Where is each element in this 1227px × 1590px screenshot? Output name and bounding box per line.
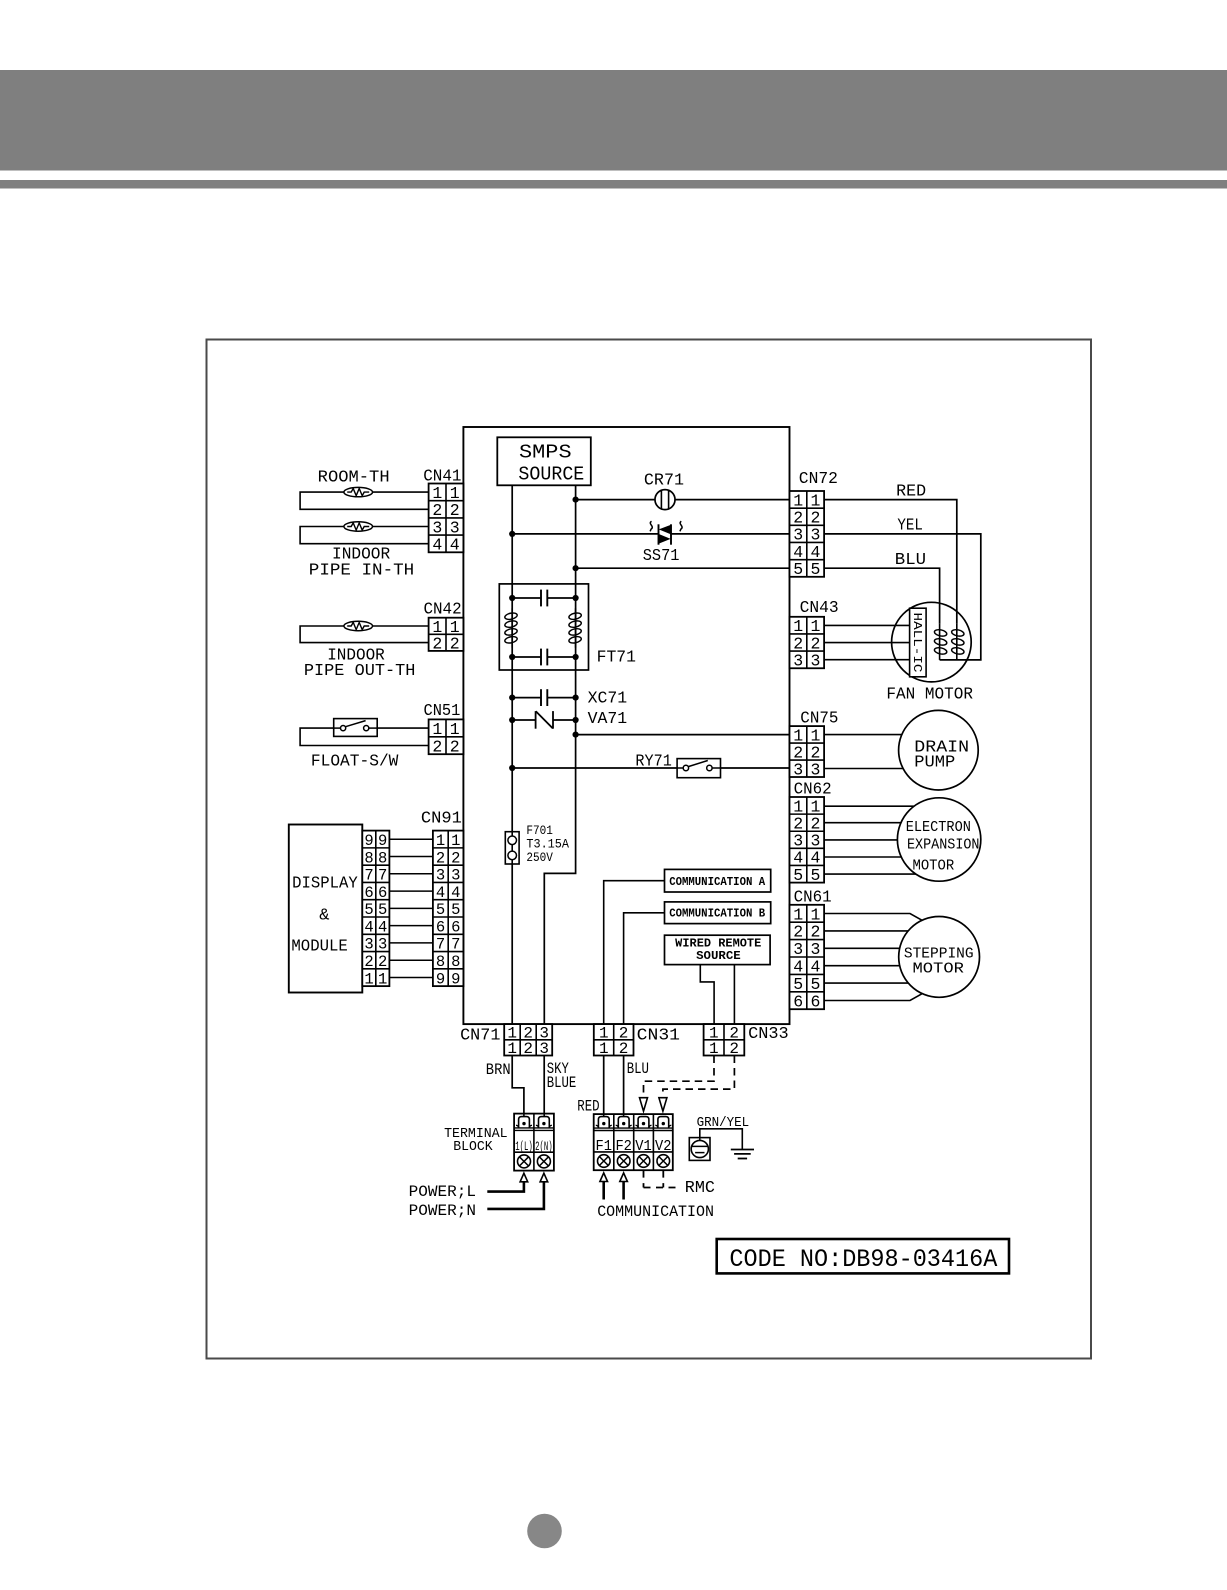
svg-text:8: 8 <box>378 849 387 867</box>
triac SS71 <box>650 521 682 544</box>
wire SS71 row <box>512 533 658 535</box>
connector CN51 body <box>429 719 464 754</box>
wire RY71 row left <box>512 767 677 769</box>
svg-text:CN33: CN33 <box>748 1024 789 1043</box>
wire CN72 pin3 YEL <box>824 534 981 660</box>
svg-text:VA71: VA71 <box>588 709 628 728</box>
svg-text:5: 5 <box>436 901 445 919</box>
svg-text:2: 2 <box>810 634 820 653</box>
block COMMUNICATION B <box>665 902 771 924</box>
svg-text:2: 2 <box>450 737 460 756</box>
wire WIRED REMOTE SOURCE to CN33 pin1 <box>700 965 714 1025</box>
varistor VA71 <box>512 711 575 729</box>
svg-text:YEL: YEL <box>897 516 923 535</box>
wire CN43 pin3 <box>824 659 910 661</box>
svg-text:XC71: XC71 <box>588 689 628 708</box>
svg-text:2: 2 <box>432 737 442 756</box>
arrow POWER;N <box>540 1173 548 1182</box>
cable ROOM-TH <box>300 492 429 509</box>
screw terminal V1 <box>637 1155 650 1168</box>
svg-text:1: 1 <box>364 970 373 988</box>
svg-text:F701: F701 <box>526 824 553 838</box>
svg-text:2: 2 <box>793 634 803 653</box>
svg-text:COMMUNICATION B: COMMUNICATION B <box>669 908 765 921</box>
svg-text:MODULE: MODULE <box>291 938 347 957</box>
junction left rail / RY71 row <box>509 765 515 771</box>
screw terminal V2 <box>657 1155 670 1168</box>
svg-text:9: 9 <box>451 970 460 988</box>
svg-text:CN75: CN75 <box>800 709 838 728</box>
page number circle <box>527 1514 562 1549</box>
capacitor FT71 top <box>512 590 575 607</box>
wire WIRED REMOTE SOURCE to CN33 pin2 <box>733 965 735 1025</box>
svg-text:FT71: FT71 <box>597 648 636 667</box>
junction FT71 top right <box>573 595 579 601</box>
wire RED to F1 <box>603 1056 605 1117</box>
wire CN72 pin1 RED <box>824 500 957 624</box>
svg-text:BLU: BLU <box>895 550 926 569</box>
svg-text:POWER;N: POWER;N <box>409 1202 476 1220</box>
svg-text:6: 6 <box>364 884 373 902</box>
svg-text:WIRED REMOTE: WIRED REMOTE <box>675 938 761 951</box>
svg-text:CN71: CN71 <box>460 1026 500 1045</box>
connector CN91 pin numbers <box>436 832 461 988</box>
svg-text:2: 2 <box>523 1040 533 1058</box>
svg-text:250V: 250V <box>526 851 553 865</box>
svg-text:2: 2 <box>793 509 803 528</box>
fuse F701 <box>505 832 519 864</box>
junction right rail / CR71 row <box>573 497 579 503</box>
svg-text:STEPPING: STEPPING <box>904 947 974 963</box>
svg-text:5: 5 <box>793 560 803 579</box>
svg-text:CN72: CN72 <box>799 469 838 488</box>
wire BRN entry stub <box>523 1114 525 1117</box>
float switch FLOAT-S/W <box>334 719 378 737</box>
svg-text:FLOAT-S/W: FLOAT-S/W <box>311 752 399 771</box>
svg-text:7: 7 <box>436 936 445 954</box>
motor FAN MOTOR circle <box>892 602 972 682</box>
connector CN91 body <box>433 831 464 987</box>
wires CN62 to expansion motor <box>824 806 916 874</box>
svg-text:4: 4 <box>810 958 820 977</box>
labels F1 F2 V1 V2 <box>596 1139 672 1155</box>
svg-text:CODE NO:DB98-03416A: CODE NO:DB98-03416A <box>729 1245 997 1274</box>
svg-text:8: 8 <box>451 953 460 971</box>
inductor fan motor aux winding <box>951 624 965 660</box>
dashed wire CN33 pin2 to V2 <box>663 1056 735 1097</box>
cable FLOAT-S/W <box>300 728 429 745</box>
svg-text:3: 3 <box>810 652 820 671</box>
svg-text:RY71: RY71 <box>635 752 671 771</box>
connector CN61 pin numbers <box>793 905 820 1011</box>
svg-text:COMMUNICATION: COMMUNICATION <box>597 1203 714 1221</box>
wire SMPS left rail <box>511 485 513 1024</box>
terminal clamp V2 <box>655 1117 671 1128</box>
svg-text:3: 3 <box>436 867 445 885</box>
terminal clamp 1(L) <box>516 1117 532 1128</box>
inductor fan motor main winding <box>934 624 948 660</box>
wires CN61 to stepping motor <box>824 914 923 1001</box>
wire BLU entry stub <box>623 1114 625 1117</box>
earth screw GRN/YEL <box>689 1138 710 1161</box>
svg-text:PIPE OUT-TH: PIPE OUT-TH <box>304 661 416 680</box>
junction FT71 bottom left <box>509 654 515 660</box>
svg-text:5: 5 <box>364 901 373 919</box>
svg-text:PIPE IN-TH: PIPE IN-TH <box>309 561 414 580</box>
svg-text:5: 5 <box>451 901 460 919</box>
junction XC71 right <box>573 695 579 701</box>
connector CN31 body <box>594 1024 634 1055</box>
svg-text:4: 4 <box>451 884 460 902</box>
connector CN51 pin numbers <box>432 720 459 756</box>
inductor FT71 right winding <box>568 608 582 647</box>
SMPS SOURCE block <box>497 437 591 485</box>
diagram outer border <box>207 340 1092 1359</box>
wire CN43 pin2 <box>824 642 910 644</box>
block COMMUNICATION A <box>665 869 771 892</box>
label INDOOR PIPE OUT-TH <box>304 646 416 681</box>
wires DISPLAY to CN91 <box>389 839 433 977</box>
screw terminal F2 <box>617 1155 630 1168</box>
svg-text:4: 4 <box>432 536 442 555</box>
svg-text:5: 5 <box>378 901 387 919</box>
svg-text:SS71: SS71 <box>643 546 680 565</box>
svg-text:3: 3 <box>810 526 820 545</box>
svg-text:6: 6 <box>793 992 803 1011</box>
connector CN62 body <box>790 797 825 883</box>
svg-text:4: 4 <box>436 884 445 902</box>
svg-text:5: 5 <box>793 975 803 994</box>
svg-text:4: 4 <box>450 536 460 555</box>
svg-text:3: 3 <box>378 936 387 954</box>
wire BRN <box>512 1056 524 1117</box>
svg-text:2: 2 <box>436 849 445 867</box>
svg-text:F1: F1 <box>596 1139 613 1155</box>
wire CN75 pin3 to pump <box>824 768 903 770</box>
junction right rail / CN75 pin1 <box>573 732 579 738</box>
svg-text:7: 7 <box>378 867 387 885</box>
connector CN41 pin numbers <box>432 484 459 555</box>
svg-text:1: 1 <box>450 720 460 739</box>
wire CN72 pin5 row <box>576 567 790 569</box>
main control board outline <box>463 427 789 1024</box>
wire CR71 row <box>576 499 655 501</box>
svg-text:2: 2 <box>793 923 803 942</box>
svg-text:V2: V2 <box>655 1139 672 1155</box>
motor STEPPING MOTOR <box>899 917 980 998</box>
label INDOOR PIPE IN-TH <box>309 545 414 580</box>
svg-text:1: 1 <box>436 832 445 850</box>
svg-text:2(N): 2(N) <box>535 1140 553 1154</box>
svg-text:2: 2 <box>432 501 442 520</box>
svg-text:5: 5 <box>810 560 820 579</box>
svg-text:&: & <box>319 907 329 926</box>
svg-text:BLUE: BLUE <box>547 1074 577 1092</box>
svg-text:SMPS: SMPS <box>519 442 572 464</box>
wire COMMUNICATION F2 arrow <box>622 1181 625 1199</box>
junction right rail / pin5 row <box>573 565 579 571</box>
connector CN41 body <box>429 484 464 553</box>
svg-text:3: 3 <box>432 518 442 537</box>
wire POWER;L <box>487 1182 524 1192</box>
terminal block COMMUNICATION body <box>594 1114 673 1170</box>
svg-text:4: 4 <box>364 918 373 936</box>
svg-text:CR71: CR71 <box>644 471 684 490</box>
motor ELECTRON EXPANSION MOTOR <box>897 798 980 881</box>
svg-text:3: 3 <box>793 526 803 545</box>
screw terminal 1(L) <box>518 1155 531 1168</box>
svg-text:RED: RED <box>577 1098 599 1116</box>
svg-text:6: 6 <box>378 884 387 902</box>
svg-text:F2: F2 <box>615 1139 632 1155</box>
svg-text:3: 3 <box>793 652 803 671</box>
svg-text:5: 5 <box>810 866 820 885</box>
svg-text:BLOCK: BLOCK <box>453 1140 493 1155</box>
svg-text:1: 1 <box>793 905 803 924</box>
svg-text:3: 3 <box>364 936 373 954</box>
wire SKY BLUE entry stub <box>543 1114 545 1117</box>
dashed wire V1 V2 to RMC <box>644 1171 682 1188</box>
screw terminal F1 <box>598 1155 611 1168</box>
wire right rail to CN75 pin1 <box>576 734 790 736</box>
svg-text:9: 9 <box>364 832 373 850</box>
DISPLAY & MODULE block <box>289 825 363 993</box>
svg-text:MOTOR: MOTOR <box>913 962 965 978</box>
cable INDOOR PIPE OUT-TH <box>300 626 429 643</box>
wire earth <box>700 1129 743 1150</box>
svg-text:SOURCE: SOURCE <box>518 464 584 486</box>
svg-text:1: 1 <box>432 720 442 739</box>
svg-text:RED: RED <box>896 482 926 501</box>
svg-text:5: 5 <box>793 866 803 885</box>
svg-text:FAN MOTOR: FAN MOTOR <box>886 685 973 704</box>
wire CN72 pin5 BLU <box>824 568 940 624</box>
connector CN72 body <box>790 491 825 577</box>
svg-text:CN43: CN43 <box>800 598 839 617</box>
thermistor ROOM-TH <box>344 487 373 496</box>
connector CN61 body <box>790 905 825 1009</box>
svg-text:8: 8 <box>436 953 445 971</box>
arrow into V1 <box>640 1098 648 1112</box>
svg-text:3: 3 <box>810 760 820 779</box>
block WIRED REMOTE SOURCE <box>665 935 771 964</box>
connector DISPLAY-side body <box>362 831 389 987</box>
inductor FT71 left winding <box>504 608 518 647</box>
label F701 value <box>526 824 569 865</box>
svg-text:CN62: CN62 <box>794 780 832 799</box>
svg-text:2: 2 <box>810 923 820 942</box>
connector CN71 body <box>504 1024 552 1055</box>
svg-text:CN42: CN42 <box>424 600 462 619</box>
connector CN33 pin numbers <box>709 1025 739 1059</box>
svg-text:BLU: BLU <box>627 1060 649 1078</box>
svg-text:T3.15A: T3.15A <box>526 838 569 852</box>
crystal CR71 <box>655 490 675 510</box>
connector CN43 pin numbers <box>793 617 820 670</box>
svg-text:CN51: CN51 <box>424 701 461 720</box>
svg-text:7: 7 <box>451 936 460 954</box>
svg-text:BRN: BRN <box>486 1061 511 1079</box>
junction VA71 left <box>509 717 515 723</box>
connector CN72 pin numbers <box>793 491 820 579</box>
terminal clamp 2(N) <box>536 1117 552 1128</box>
svg-text:HALL-IC: HALL-IC <box>910 613 923 673</box>
svg-text:1: 1 <box>810 905 820 924</box>
label TERMINAL BLOCK <box>444 1127 508 1155</box>
svg-text:1(L): 1(L) <box>515 1140 533 1154</box>
svg-text:3: 3 <box>810 940 820 959</box>
wire SKY BLUE <box>543 1056 545 1117</box>
connector CN33 body <box>704 1024 745 1055</box>
relay contact RY71 <box>677 759 720 778</box>
arrow POWER;L <box>520 1173 528 1182</box>
svg-text:1: 1 <box>451 832 460 850</box>
svg-text:DISPLAY: DISPLAY <box>292 875 358 894</box>
header thin gray rule <box>0 180 1227 189</box>
junction XC71 left <box>509 695 515 701</box>
svg-text:4: 4 <box>793 958 803 977</box>
svg-text:2: 2 <box>810 509 820 528</box>
svg-text:6: 6 <box>436 918 445 936</box>
svg-text:CN31: CN31 <box>637 1026 680 1045</box>
arrow COMM F2 <box>620 1173 628 1182</box>
terminal clamp F2 <box>616 1117 632 1128</box>
ground symbol <box>731 1150 754 1159</box>
connector CN42 body <box>429 618 464 651</box>
capacitor FT71 bottom <box>512 649 575 666</box>
capacitor XC71 <box>512 689 575 706</box>
terminal block POWER body <box>514 1114 554 1171</box>
svg-text:CN91: CN91 <box>421 809 462 828</box>
svg-text:2: 2 <box>451 849 460 867</box>
svg-text:2: 2 <box>364 953 373 971</box>
svg-text:V1: V1 <box>635 1139 652 1155</box>
wire BLU to F2 <box>623 1056 625 1117</box>
junction left rail / SS71 row <box>509 531 515 537</box>
svg-text:1: 1 <box>450 484 460 503</box>
svg-text:2: 2 <box>450 634 460 653</box>
label SKY BLUE <box>547 1060 577 1092</box>
wire POWER;N <box>487 1182 544 1209</box>
thermistor INDOOR PIPE IN-TH <box>344 522 373 531</box>
svg-text:PUMP: PUMP <box>914 753 955 772</box>
wire COMMUNICATION B to CN31 pin2 <box>624 913 665 1024</box>
svg-text:MOTOR: MOTOR <box>913 859 955 875</box>
svg-text:7: 7 <box>364 867 373 885</box>
svg-text:1: 1 <box>378 970 387 988</box>
terminal clamp F1 <box>596 1117 612 1128</box>
arrow COMM F1 <box>600 1173 608 1182</box>
junction FT71 bottom right <box>573 654 579 660</box>
svg-text:5: 5 <box>810 975 820 994</box>
svg-text:COMMUNICATION A: COMMUNICATION A <box>669 876 765 889</box>
junction VA71 right <box>573 717 579 723</box>
motor DRAIN PUMP <box>899 710 979 790</box>
connector CN31 pin numbers <box>599 1025 628 1059</box>
line filter FT71 box <box>499 584 588 670</box>
svg-text:6: 6 <box>451 918 460 936</box>
header gray bar <box>0 70 1227 171</box>
svg-text:2: 2 <box>378 953 387 971</box>
svg-text:6: 6 <box>810 992 820 1011</box>
svg-text:POWER;L: POWER;L <box>409 1183 476 1201</box>
svg-text:CN61: CN61 <box>794 888 832 907</box>
wire COMMUNICATION F1 arrow <box>602 1181 605 1199</box>
connector CN62 pin numbers <box>793 797 820 884</box>
wire RY71 to CN75 pin3 <box>721 767 790 769</box>
cable INDOOR PIPE IN-TH <box>300 527 429 544</box>
svg-text:2: 2 <box>432 634 442 653</box>
connector DISPLAY-side pin numbers <box>364 832 387 988</box>
thermistor INDOOR PIPE OUT-TH <box>344 621 373 630</box>
wire SMPS right rail <box>544 485 575 1024</box>
connector CN75 pin numbers <box>793 726 820 779</box>
screw terminal 2(N) <box>537 1155 550 1168</box>
terminal clamp V1 <box>636 1117 652 1128</box>
wire COMMUNICATION A to CN31 pin1 <box>604 881 665 1024</box>
svg-text:3: 3 <box>450 518 460 537</box>
svg-text:EXPANSION: EXPANSION <box>907 838 980 854</box>
svg-text:3: 3 <box>793 940 803 959</box>
arrow into V2 <box>659 1098 667 1112</box>
svg-text:ROOM-TH: ROOM-TH <box>318 468 390 487</box>
svg-text:9: 9 <box>436 970 445 988</box>
code number box <box>717 1239 1009 1274</box>
connector CN42 pin numbers <box>432 618 459 654</box>
hall sensor HALL-IC <box>910 608 927 677</box>
wire RED entry stub <box>603 1114 605 1117</box>
connector CN43 body <box>790 617 825 668</box>
svg-text:8: 8 <box>364 849 373 867</box>
svg-text:RMC: RMC <box>685 1179 715 1198</box>
svg-text:ELECTRON: ELECTRON <box>906 820 971 836</box>
svg-text:2: 2 <box>450 501 460 520</box>
connector CN71 pin numbers <box>507 1025 549 1059</box>
wire CN43 pin1 <box>824 624 910 626</box>
svg-text:SOURCE: SOURCE <box>696 950 741 963</box>
svg-text:3: 3 <box>793 760 803 779</box>
svg-text:9: 9 <box>378 832 387 850</box>
junction FT71 top left <box>509 595 515 601</box>
svg-text:1: 1 <box>432 484 442 503</box>
svg-text:4: 4 <box>378 918 387 936</box>
dashed wire CN33 pin1 to V1 <box>644 1056 715 1097</box>
svg-text:3: 3 <box>451 867 460 885</box>
wire CN75 pin1 to pump <box>824 734 902 736</box>
connector CN75 body <box>790 726 825 777</box>
